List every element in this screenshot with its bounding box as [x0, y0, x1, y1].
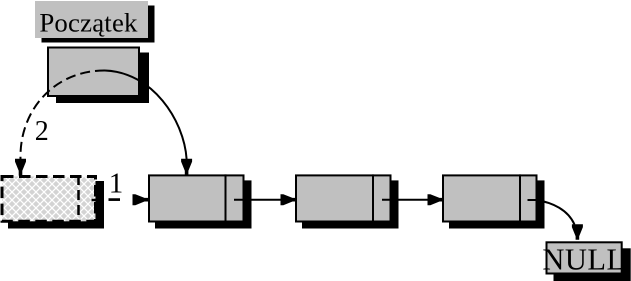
pointer tick in hatched box	[92, 199, 99, 202]
node 1 divider	[225, 174, 227, 222]
node 2 divider	[372, 174, 374, 222]
arrowhead node1 to node2	[281, 194, 297, 205]
svg-text:Początek: Początek	[39, 7, 138, 37]
shadow of Poczatek label box	[42, 6, 155, 43]
node 3 shadow	[449, 180, 545, 228]
arrowhead of arrow 1	[133, 194, 149, 205]
arrowhead node2 to node3	[428, 194, 444, 205]
svg-text:2: 2	[35, 116, 49, 147]
shadow of NULL box	[554, 248, 631, 281]
dashed arc step 2 from head box to new element	[20, 70, 105, 159]
new element hatched box	[2, 177, 96, 222]
head pointer box	[48, 48, 139, 97]
Poczatek label box	[35, 1, 148, 38]
arrow node2 to node3	[382, 199, 429, 201]
node 1 box	[149, 175, 244, 221]
solid arc from head box to node 1	[105, 71, 187, 160]
NULL box	[547, 242, 622, 273]
shadow of head pointer box	[56, 53, 149, 104]
divider in hatched box	[77, 175, 80, 221]
arrow node1 to node2	[234, 199, 282, 201]
arrowhead to NULL	[572, 224, 583, 240]
shadow of new element (hatched) box	[8, 181, 104, 229]
svg-text:NULL: NULL	[542, 243, 625, 277]
svg-text:1: 1	[109, 167, 124, 199]
node 3 box	[443, 175, 537, 221]
node 2 box	[296, 175, 391, 221]
node 3 divider	[519, 174, 521, 222]
curved arrow node3 to NULL	[528, 200, 575, 225]
node 2 shadow	[302, 180, 399, 228]
node 1 shadow	[155, 180, 252, 228]
arrowhead of dashed arc	[15, 159, 26, 176]
dashed arrow 1 to node 1	[109, 198, 121, 201]
arrowhead of solid arc	[181, 159, 192, 175]
